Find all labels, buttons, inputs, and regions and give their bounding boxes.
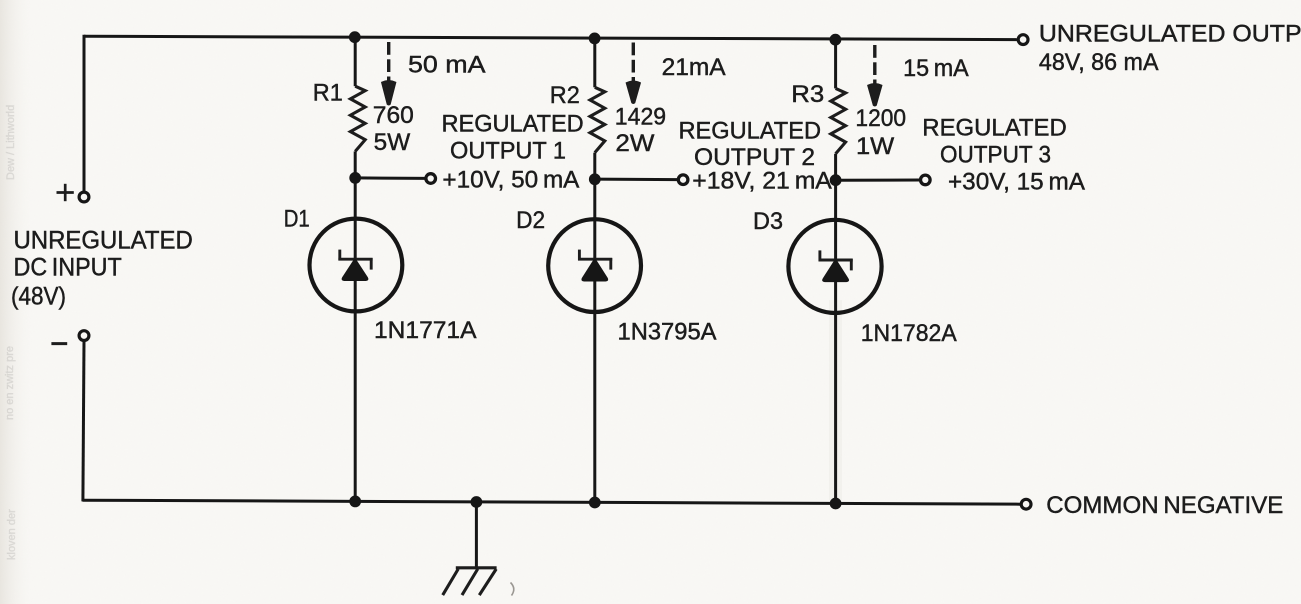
svg-text:(48V): (48V) [11,282,66,310]
junction top branch 3 [830,34,842,46]
junction bottom branch 2 [589,497,601,509]
svg-text:REGULATED: REGULATED [442,111,584,138]
scan artifact paren [511,583,514,596]
svg-text:+30V, 15 mA: +30V, 15 mA [948,169,1085,196]
zener diode D3 circle [788,220,881,313]
terminal input - [79,331,89,341]
junction bottom branch 1 [349,496,361,508]
svg-text:R2: R2 [550,82,580,109]
current arrow 3 dashes [873,45,876,84]
wire output 2 stub [595,178,678,182]
current arrow 2 dashes [632,43,635,82]
wire left vertical (input -) [83,341,84,501]
svg-text:R1: R1 [313,80,343,107]
terminal output 3 [921,175,931,185]
svg-text:5W: 5W [374,129,411,156]
zener diode D2 symbol [578,250,612,270]
junction top branch 2 [589,33,601,45]
junction bottom branch 3 [830,498,842,510]
svg-text:2W: 2W [615,130,654,157]
svg-text:REGULATED: REGULATED [922,115,1067,142]
zener diode D3 symbol [819,250,853,270]
wire bottom bus [83,500,1021,504]
zener diode D1 circle [310,219,403,312]
ground symbol [443,568,497,595]
svg-text:21mA: 21mA [662,54,726,81]
svg-text:1429: 1429 [615,104,666,131]
svg-text:D1: D1 [284,206,310,233]
svg-text:Dew / Lithworld: Dew / Lithworld [5,105,17,180]
resistor R1 [350,86,365,151]
resistor R3 [831,88,846,153]
svg-text:UNREGULATED: UNREGULATED [14,226,193,254]
wire left vertical (input +) [83,35,86,192]
junction output 1 [349,172,361,184]
svg-text:48V, 86 mA: 48V, 86 mA [1039,49,1159,76]
resistor R2 [590,87,605,152]
svg-text:D3: D3 [753,208,783,235]
terminal input + [79,192,89,202]
terminal output 1 [426,174,436,184]
terminal output 2 [678,175,688,185]
current arrow 1 head [381,80,396,105]
junction output 3 [830,174,842,186]
plus sign at input [57,184,74,201]
svg-text:OUTPUT 3: OUTPUT 3 [940,142,1051,169]
svg-text:1N1782A: 1N1782A [861,320,957,347]
current arrow 1 dashes [387,42,390,81]
svg-text:1200: 1200 [855,105,906,132]
wire top bus [84,36,1017,39]
current arrow 3 head [868,83,883,106]
svg-text:kloven der: kloven der [6,509,18,560]
left page edge tint [0,0,34,604]
junction bottom ground [471,496,483,508]
wire output 3 stub [836,179,921,182]
wire branch 1 upper [354,37,357,86]
svg-text:1N1771A: 1N1771A [374,317,477,344]
svg-text:1W: 1W [856,133,895,160]
zener diode D2 circle [548,219,641,312]
svg-text:760: 760 [373,102,414,129]
svg-text:UNREGULATED OUTPUT: UNREGULATED OUTPUT [1039,20,1301,47]
svg-text:50 mA: 50 mA [408,51,486,78]
svg-text:+10V, 50 mA: +10V, 50 mA [442,167,579,194]
junction output 2 [589,173,601,185]
wire branch 2 upper [593,38,596,87]
svg-text:COMMON NEGATIVE: COMMON NEGATIVE [1046,492,1283,519]
zener diode D1 symbol [338,250,372,270]
svg-text:+18V, 21 mA: +18V, 21 mA [692,168,832,195]
svg-text:D2: D2 [516,207,545,234]
svg-text:OUTPUT 1: OUTPUT 1 [450,138,566,165]
svg-text:no en zwitz pre: no en zwitz pre [4,346,16,420]
wire branch 3 upper [834,39,837,88]
minus sign at input [51,342,67,345]
junction top branch 1 [349,31,361,43]
wire branch 3 lower [834,154,837,504]
faint scanner streak along branch 3 [829,300,842,500]
wire branch 2 lower [593,153,596,503]
svg-text:R3: R3 [791,81,824,108]
terminal common negative [1021,499,1031,509]
svg-text:REGULATED: REGULATED [679,117,822,144]
current arrow 2 head [626,81,641,104]
svg-text:DC INPUT: DC INPUT [14,253,122,281]
wire output 1 stub [355,176,425,180]
terminal unregulated output [1018,35,1028,45]
wire ground stub [475,502,478,567]
svg-text:15 mA: 15 mA [903,55,969,82]
wire branch 1 lower [354,151,357,501]
svg-text:1N3795A: 1N3795A [618,318,717,345]
